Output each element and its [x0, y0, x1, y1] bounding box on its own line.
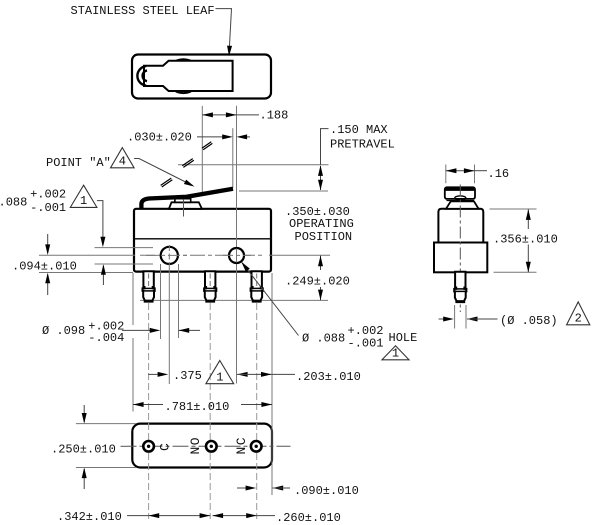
svg-text:4: 4 — [119, 155, 126, 169]
terminal NO pin — [204, 271, 216, 301]
svg-text:STAINLESS STEEL LEAF: STAINLESS STEEL LEAF — [71, 4, 215, 18]
dim .030±.020 — [197, 136, 223, 138]
top view: plunger circle under leaf — [167, 59, 201, 93]
svg-text:.356±.010: .356±.010 — [493, 232, 558, 246]
dim .094±.010 — [47, 234, 49, 253]
bottom view: terminal C — [143, 441, 154, 452]
svg-text:.260±.010: .260±.010 — [276, 511, 341, 525]
dim Ø.088 hole leader with flag 1 — [242, 263, 299, 336]
.250 extension lines — [76, 423, 136, 425]
svg-text:.094±.010: .094±.010 — [12, 259, 77, 273]
leaf free position line — [178, 164, 329, 166]
dim (Ø.058) with flag 2 — [439, 318, 444, 320]
terminal C pin — [143, 271, 155, 301]
svg-text:-.001: -.001 — [30, 201, 66, 215]
hole top tangent line — [95, 247, 154, 249]
svg-text:NO: NO — [188, 436, 203, 455]
svg-text:1: 1 — [80, 194, 87, 208]
front view: right hole (dia .088) — [229, 248, 244, 263]
dim .249±.020 — [320, 256, 322, 270]
svg-text:C: C — [158, 442, 173, 451]
svg-text:.030±.020: .030±.020 — [127, 131, 192, 145]
svg-text:2: 2 — [575, 312, 582, 326]
svg-text:.088: .088 — [0, 196, 27, 210]
bottom view: switch base outline — [132, 424, 272, 468]
dim .260±.010 — [213, 515, 257, 517]
svg-text:HOLE: HOLE — [389, 331, 418, 345]
front view: switch body — [134, 209, 271, 272]
side view: lower body — [434, 243, 487, 273]
top view: switch body outline — [132, 55, 271, 99]
side view vertical centerline — [459, 185, 461, 313]
dim .150 MAX PRETRAVEL — [321, 129, 329, 165]
side view: plunger — [446, 201, 479, 208]
pin center dashes inside posts — [148, 274, 150, 287]
dim .781±.010 — [133, 404, 163, 406]
leaf lever (front view) — [141, 189, 233, 209]
dim .356±.010 — [527, 209, 529, 229]
svg-text:.250±.010: .250±.010 — [51, 442, 116, 456]
dim .375 with flag 1 — [148, 373, 157, 375]
top view: stainless steel leaf — [144, 61, 233, 91]
.16 extension lines — [445, 165, 447, 184]
terminal NC pin — [251, 271, 263, 301]
left hole center vertical line — [168, 266, 170, 384]
side view pin — [454, 272, 466, 302]
svg-text:.342±.010: .342±.010 — [57, 510, 122, 524]
front view: left hole (dia .098) — [161, 247, 178, 264]
svg-text:NC: NC — [234, 436, 249, 455]
front view: plunger button — [169, 202, 202, 209]
svg-text:1: 1 — [216, 371, 223, 385]
side pin edge extensions — [454, 305, 456, 329]
hole centerline through holes — [146, 254, 190, 256]
front view: case split line — [134, 238, 271, 240]
.356 extension lines — [490, 208, 537, 210]
terminal centerlines — [148, 273, 150, 519]
svg-text:.188: .188 — [260, 109, 289, 123]
right hole center vertical inside — [236, 249, 238, 263]
plunger centerline — [183, 197, 185, 217]
left hole edge extensions — [160, 264, 162, 339]
dim .090±.010 — [237, 487, 246, 489]
terminal seating line — [140, 299, 328, 301]
svg-text:POINT "A": POINT "A" — [46, 156, 111, 170]
bottom view: terminal NO — [206, 441, 217, 452]
svg-text:.16: .16 — [488, 167, 510, 181]
svg-text:Ø .098: Ø .098 — [42, 324, 85, 338]
svg-text:POSITION: POSITION — [295, 230, 353, 244]
svg-text:1: 1 — [392, 347, 399, 361]
svg-text:-.001: -.001 — [348, 336, 384, 350]
extension line C (right hole center) — [236, 106, 238, 384]
svg-text:+.002: +.002 — [30, 187, 66, 201]
svg-text:.090±.010: .090±.010 — [294, 484, 359, 498]
svg-text:-.004: -.004 — [88, 331, 124, 345]
bottom view horizontal centerline — [121, 445, 291, 447]
dim .250±.010 — [83, 405, 85, 422]
svg-text:Ø .088: Ø .088 — [302, 332, 345, 346]
svg-text:.150 MAX: .150 MAX — [330, 123, 388, 137]
body left edge extension — [132, 273, 134, 325]
svg-text:.375: .375 — [173, 369, 202, 383]
svg-text:PRETRAVEL: PRETRAVEL — [330, 137, 395, 151]
dim .16 — [446, 170, 475, 172]
body right edge extension — [271, 273, 273, 495]
extension line B (leaf tip) — [232, 128, 234, 188]
leaf tip level line — [239, 190, 328, 192]
lever phantom position slashes — [161, 178, 172, 185]
top view: rolled leaf end hook — [137, 66, 146, 86]
svg-text:.203±.010: .203±.010 — [296, 370, 361, 384]
body bottom extension left — [39, 272, 133, 274]
dim .188 — [202, 114, 259, 116]
bottom view: terminal NC — [251, 441, 262, 452]
svg-text:(Ø .058): (Ø .058) — [500, 314, 558, 328]
hole horizontal centerline — [39, 254, 135, 256]
side view: upper body — [438, 209, 483, 243]
svg-text:.249±.020: .249±.020 — [285, 274, 350, 288]
extension line A (plunger line) — [201, 106, 203, 195]
hole bottom tangent line — [95, 263, 154, 265]
side view: rolled leaf cap — [445, 187, 475, 199]
left hole center dashes inside — [168, 245, 170, 266]
svg-text:.781±.010: .781±.010 — [165, 400, 230, 414]
